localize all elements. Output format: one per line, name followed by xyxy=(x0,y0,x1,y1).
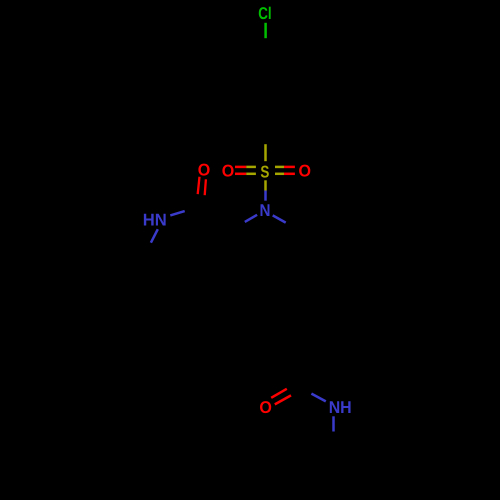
svg-text:O: O xyxy=(259,398,272,417)
svg-text:O: O xyxy=(222,162,235,181)
svg-text:Cl: Cl xyxy=(258,4,271,23)
svg-text:O: O xyxy=(299,162,312,181)
svg-text:HN: HN xyxy=(143,210,167,229)
svg-text:S: S xyxy=(260,162,269,181)
svg-text:O: O xyxy=(198,161,211,180)
svg-text:NH: NH xyxy=(329,398,352,417)
svg-text:N: N xyxy=(260,201,271,220)
